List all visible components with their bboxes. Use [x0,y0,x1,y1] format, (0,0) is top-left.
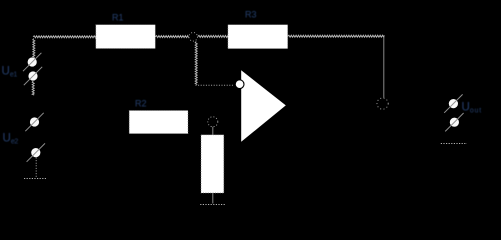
node B (non-inverting junction) [208,117,218,127]
resistor R4 (vertical, to ground) [201,135,224,193]
ground (under R4) [200,204,226,206]
svg-text:R3: R3 [245,10,257,20]
resistor R2 [129,111,188,134]
wire [212,127,214,135]
wire [198,35,228,37]
node A (summing junction) [189,33,198,42]
wire [383,37,385,98]
terminal Ue1 (-) [24,67,42,85]
terminal Uout (-) [445,113,463,131]
wire [35,158,37,179]
terminal Ue2 (+) [25,113,43,131]
resistor R3 [228,25,288,49]
wire [288,35,385,37]
wire [33,39,35,58]
wire [212,193,214,204]
node OUT [377,98,388,109]
wire [195,42,197,85]
terminal Ue2 (-) [27,143,45,161]
wire [196,84,235,86]
terminal Ue1 (+) [23,53,41,71]
svg-text:R1: R1 [112,13,124,23]
terminal Uout (+) [444,94,462,112]
op-amp U1 [235,70,286,142]
svg-text:R2: R2 [135,99,147,109]
ground (output) [441,143,467,145]
ground (left input) [24,178,47,180]
resistor R1 [96,25,156,49]
wire [155,36,188,38]
wire [33,36,96,38]
wire [32,81,34,95]
inverting input bubble [235,80,244,89]
